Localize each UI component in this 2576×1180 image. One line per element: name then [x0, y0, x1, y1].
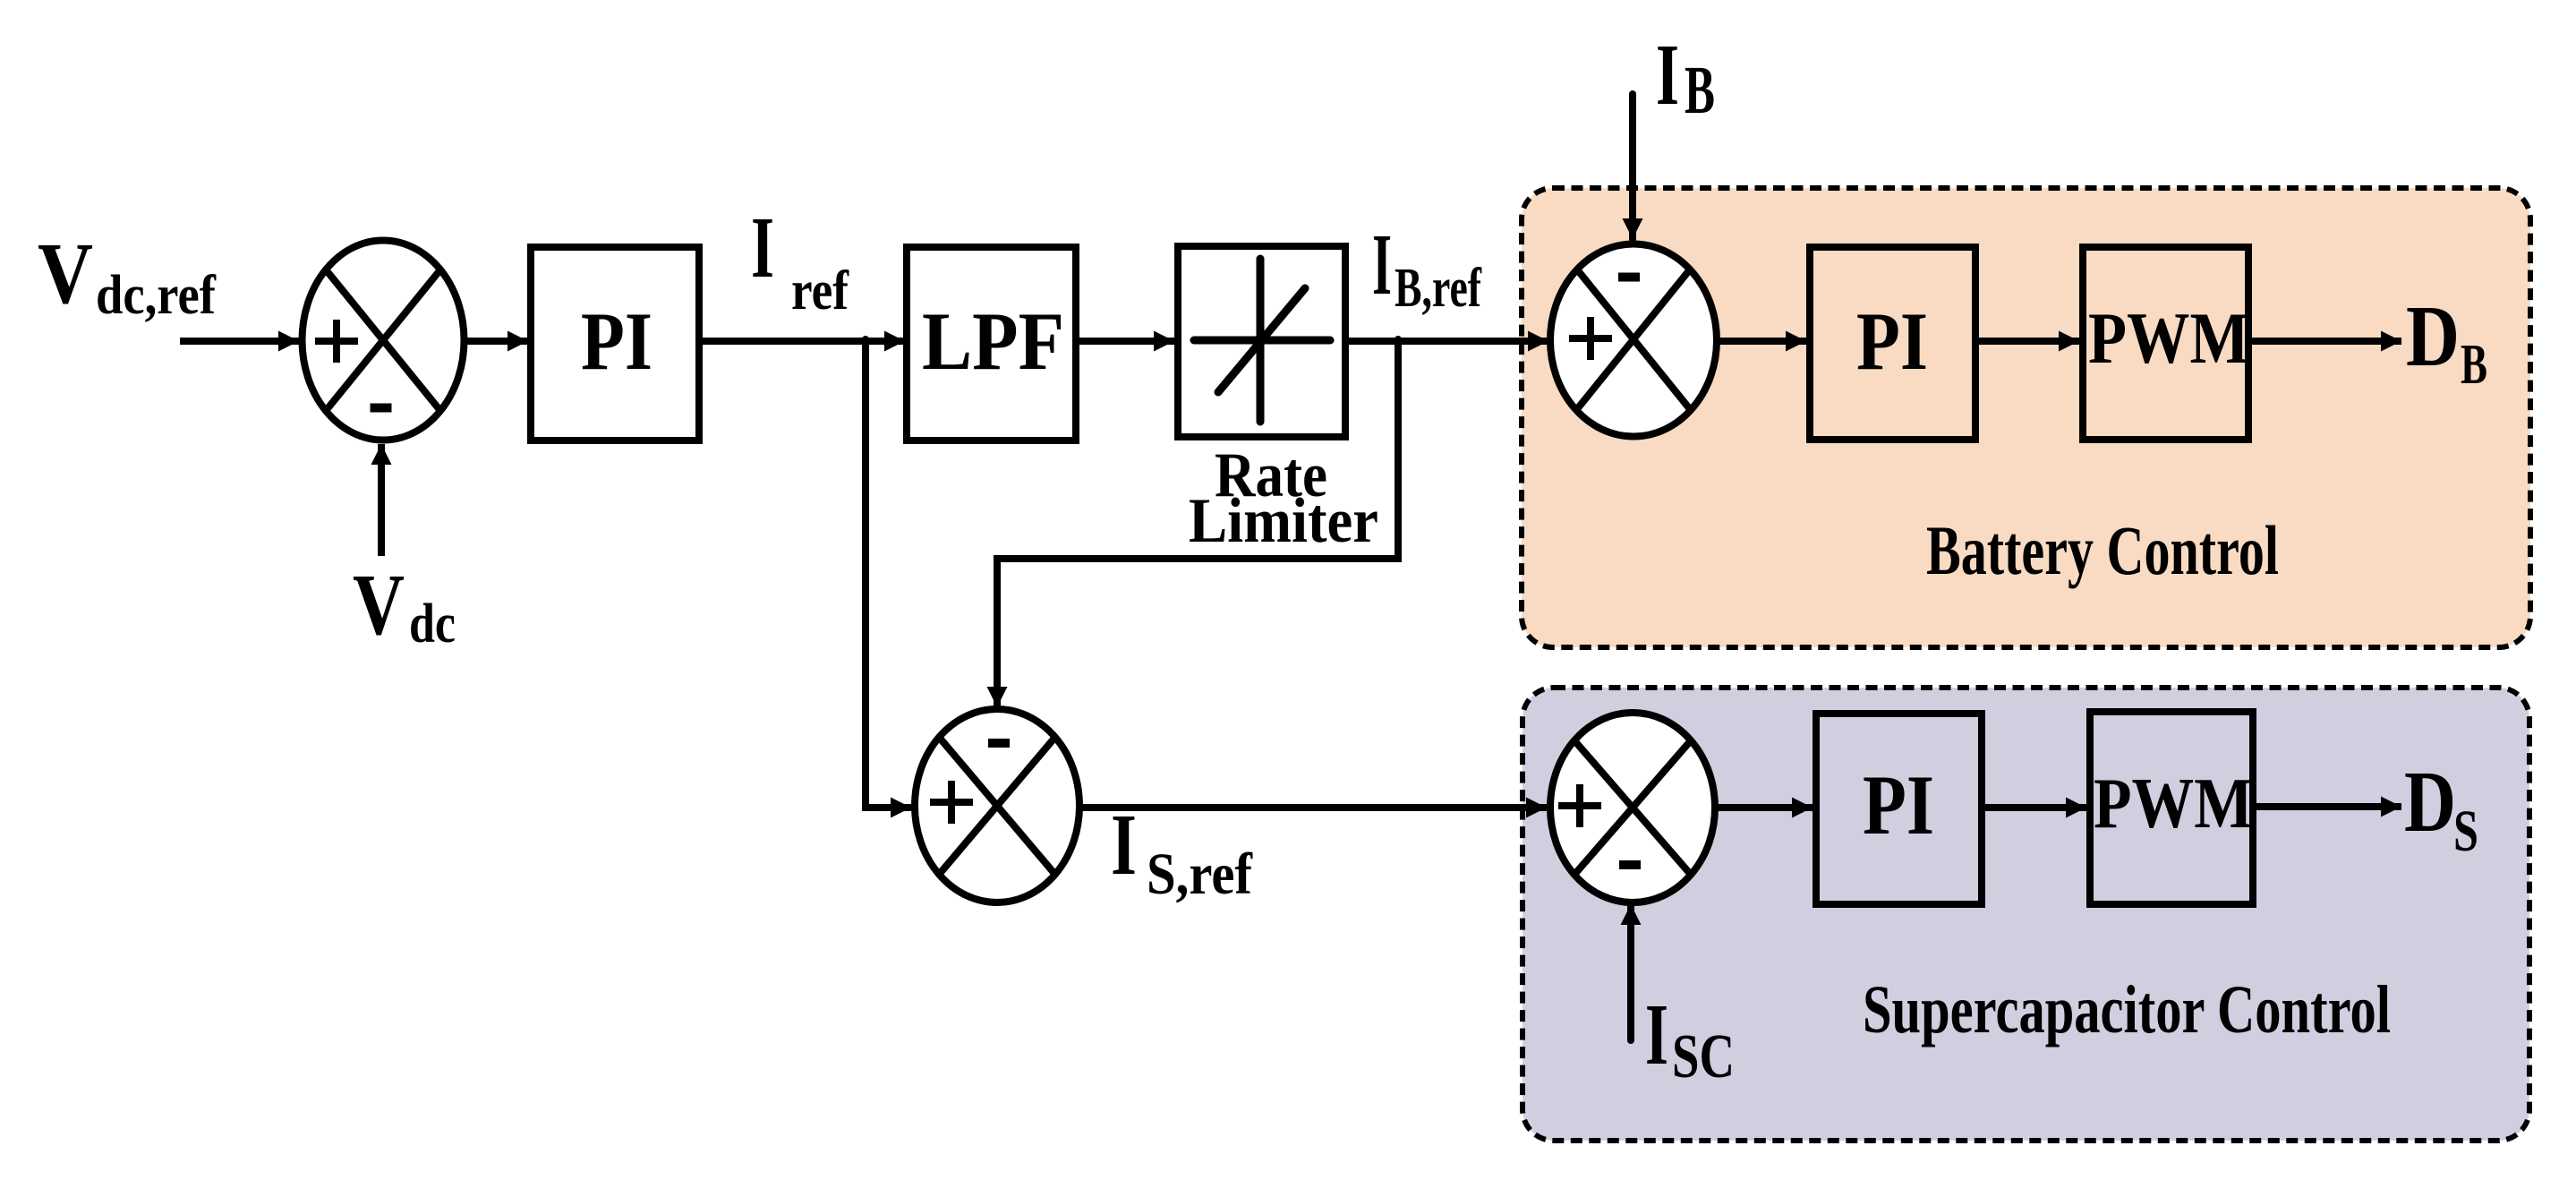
- node IB,ref label: [1372, 217, 1482, 319]
- wire rate limiter to summing junction S2: [1345, 338, 1548, 345]
- block PWM (supercap): [2090, 712, 2253, 904]
- wire Iref branch down to summing junction S3: [866, 339, 911, 808]
- wire Vdc feedback to summing junction S1: [378, 444, 385, 556]
- svg-text:V: V: [353, 557, 405, 654]
- node DS label: [2404, 754, 2478, 864]
- block LPF: [907, 247, 1076, 440]
- node Vdc label: [353, 557, 456, 654]
- summing junction S1: [303, 241, 465, 440]
- svg-text:B: B: [1685, 53, 1715, 128]
- node Vdc,ref label: [38, 226, 217, 326]
- summing junction S4 (supercapacitor): [1550, 713, 1715, 902]
- wire PI U3 to PWM supercap: [1982, 804, 2086, 811]
- svg-text:I: I: [1372, 217, 1392, 313]
- svg-text:Battery Control: Battery Control: [1926, 511, 2279, 589]
- supercapacitor control region: [1523, 688, 2529, 1141]
- svg-text:S: S: [2453, 799, 2478, 864]
- wire PI U1 to LPF: [703, 338, 905, 345]
- svg-text:I: I: [1656, 27, 1679, 124]
- svg-text:SC: SC: [1672, 1022, 1735, 1091]
- svg-text:PWM: PWM: [2094, 765, 2253, 843]
- wire S4 to PI supercap block: [1715, 804, 1813, 811]
- svg-text:I: I: [1645, 987, 1668, 1083]
- node IB label: [1656, 27, 1715, 128]
- svg-text:Limiter: Limiter: [1189, 486, 1378, 556]
- battery control region: [1522, 188, 2530, 647]
- wire IB,ref feedback down to summing junction S3: [997, 339, 1398, 707]
- node DB label: [2406, 288, 2487, 396]
- wire S3 to summing junction S4: [1079, 804, 1547, 811]
- wire PI U2 to PWM battery: [1979, 338, 2079, 345]
- svg-text:I: I: [751, 200, 774, 296]
- rate limiter caption: [1189, 440, 1378, 556]
- summing junction S2 (battery): [1550, 244, 1717, 437]
- block rate limiter: [1178, 246, 1345, 437]
- wire IB input down to summing junction S2: [1629, 94, 1636, 239]
- svg-text:PI: PI: [1863, 757, 1934, 852]
- wire PWM supercap to DS output: [2253, 803, 2401, 810]
- svg-text:PI: PI: [1856, 295, 1928, 387]
- svg-text:V: V: [38, 226, 93, 322]
- svg-text:Supercapacitor Control: Supercapacitor Control: [1863, 972, 2391, 1047]
- block PI U2 (battery current loop): [1810, 247, 1975, 440]
- block PWM (battery): [2083, 247, 2249, 440]
- wire ISC input up to summing junction S4: [1627, 904, 1634, 1040]
- svg-text:PI: PI: [581, 295, 653, 387]
- svg-text:D: D: [2404, 754, 2456, 851]
- node ISC label: [1645, 987, 1735, 1091]
- svg-text:S,ref: S,ref: [1147, 842, 1253, 907]
- svg-text:PWM: PWM: [2088, 297, 2249, 379]
- wire PWM battery to DB output: [2252, 338, 2401, 345]
- block PI U1 (voltage loop): [531, 247, 699, 440]
- node IS,ref label: [1111, 797, 1253, 907]
- wire S1 to PI voltage block: [467, 338, 528, 345]
- wire Vdc,ref input to summing junction S1: [180, 338, 299, 345]
- svg-text:I: I: [1111, 797, 1137, 894]
- svg-text:LPF: LPF: [922, 295, 1064, 387]
- block PI U3 (supercap current loop): [1816, 714, 1982, 904]
- wire LPF to rate limiter: [1076, 338, 1174, 345]
- wire S2 to PI battery block: [1717, 338, 1806, 345]
- svg-text:dc,ref: dc,ref: [96, 265, 217, 326]
- node Iref label: [751, 200, 849, 321]
- svg-text:D: D: [2406, 288, 2460, 385]
- summing junction S3 (IS,ref generator): [915, 709, 1079, 902]
- svg-text:B,ref: B,ref: [1395, 258, 1482, 319]
- svg-text:B: B: [2461, 332, 2487, 396]
- svg-text:ref: ref: [791, 261, 849, 321]
- svg-text:dc: dc: [409, 594, 456, 654]
